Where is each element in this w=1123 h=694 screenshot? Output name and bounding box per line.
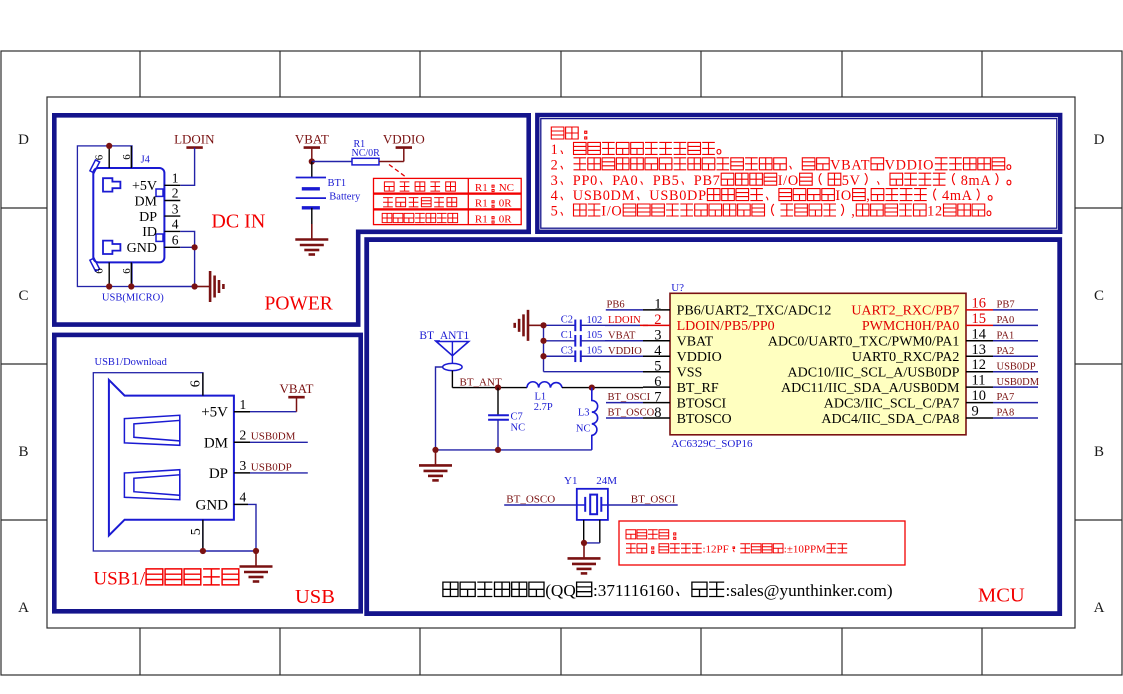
- J4 mounting tab top-left: [90, 160, 100, 173]
- wire VBAT bar to junction: [311, 148, 313, 162]
- net label PB6: [606, 309, 643, 311]
- ground: [568, 543, 601, 574]
- net label USB0DM: [234, 441, 250, 443]
- svg-text:PWMCH0H/PA0: PWMCH0H/PA0: [862, 319, 960, 334]
- svg-text:VBAT: VBAT: [830, 157, 870, 173]
- capacitor C1: [544, 335, 606, 347]
- net label PA1: [993, 340, 1038, 342]
- svg-text:USB0DP: USB0DP: [251, 461, 292, 473]
- svg-text:PA0: PA0: [612, 173, 638, 189]
- svg-text:ADC10/IIC_SCL_A/USB0DP: ADC10/IIC_SCL_A/USB0DP: [787, 365, 959, 380]
- MCU section border (sheet box): [367, 240, 1060, 614]
- svg-text:DM: DM: [134, 194, 157, 209]
- net label PB7: [993, 309, 1038, 311]
- capacitor C2: [544, 320, 606, 332]
- svg-text:U?: U?: [671, 282, 684, 294]
- J4 contact pad lower: [103, 241, 120, 254]
- junction: [309, 158, 315, 164]
- net label BT_OSCO: [606, 417, 643, 419]
- wire RF ground rail: [436, 449, 592, 451]
- svg-text:DP: DP: [209, 466, 228, 482]
- junction: [106, 283, 112, 289]
- crystal case ground wires: [584, 520, 600, 543]
- svg-text:B: B: [18, 444, 28, 460]
- junction: [581, 540, 587, 546]
- J4 shield pin stubs: [108, 146, 110, 168]
- USB1 pin 5 stub: [202, 520, 204, 551]
- wire R1 to VDDIO: [379, 161, 404, 163]
- svg-text:0R: 0R: [499, 213, 513, 225]
- callout dashed leader: [389, 165, 407, 178]
- svg-text:C3: C3: [561, 345, 573, 356]
- svg-text:L1: L1: [535, 392, 547, 403]
- net label VBAT: [605, 340, 643, 342]
- J4 pin 3 stub: [164, 215, 180, 217]
- table row text 2: [383, 198, 457, 207]
- svg-text:,: ,: [866, 188, 870, 204]
- svg-text:D: D: [18, 132, 29, 148]
- svg-text:,: ,: [851, 204, 855, 220]
- net label USB0DM: [993, 386, 1038, 388]
- svg-text:PA8: PA8: [997, 408, 1015, 419]
- svg-text:105: 105: [587, 346, 603, 357]
- ground: [419, 450, 452, 481]
- svg-text:PA2: PA2: [997, 346, 1015, 357]
- svg-text:BTOSCI: BTOSCI: [677, 396, 727, 411]
- USB1 pin 6 stub: [202, 373, 204, 396]
- wire J4 pin4 to GND net: [180, 231, 194, 247]
- U? pin 15 stub: [966, 324, 993, 326]
- junction: [128, 283, 134, 289]
- svg-text:3: 3: [551, 173, 559, 189]
- wire USB1 pin1 to VBAT: [234, 411, 250, 413]
- svg-text:7: 7: [654, 389, 661, 405]
- svg-text:GND: GND: [127, 241, 157, 256]
- net label USB0DP: [234, 472, 250, 474]
- USB section border (sheet box): [54, 335, 360, 611]
- svg-text:PA7: PA7: [997, 392, 1015, 403]
- svg-text:D: D: [1094, 132, 1105, 148]
- svg-text:DM: DM: [204, 435, 228, 451]
- svg-text:12: 12: [972, 357, 987, 373]
- svg-text:ADC0/UART0_TXC/PWM0/PA1: ADC0/UART0_TXC/PWM0/PA1: [768, 335, 960, 350]
- wire L1 to BT_RF pin: [562, 387, 643, 389]
- svg-text:DC IN: DC IN: [211, 211, 265, 233]
- svg-text:2: 2: [172, 186, 179, 201]
- junction: [540, 338, 546, 344]
- svg-text:L3: L3: [578, 408, 590, 419]
- svg-text:2: 2: [240, 428, 247, 443]
- junction: [192, 244, 198, 250]
- svg-text::±10PPM: :±10PPM: [784, 544, 826, 556]
- crystal Y1: [577, 489, 608, 520]
- svg-text:I/O: I/O: [601, 204, 622, 220]
- U? pin 13 stub: [966, 355, 993, 357]
- U? pin 6 stub: [643, 386, 670, 388]
- svg-text:LDOIN/PB5/PP0: LDOIN/PB5/PP0: [677, 319, 775, 334]
- connector J4 micro-USB body: [93, 168, 164, 262]
- R1 option table: [374, 178, 522, 193]
- wire antenna to ground rail: [436, 367, 443, 450]
- J4 pin bump pin5: [156, 234, 163, 241]
- crystal note box: [619, 521, 905, 565]
- svg-text:USB1/Download: USB1/Download: [95, 357, 168, 368]
- svg-text:C2: C2: [561, 314, 573, 325]
- battery BT1: [296, 162, 326, 225]
- svg-text:IO: IO: [835, 188, 852, 204]
- svg-text:I/O: I/O: [778, 173, 799, 189]
- svg-text:USB: USB: [295, 586, 335, 608]
- capacitor C7: [488, 388, 509, 450]
- svg-text:PB5: PB5: [653, 173, 680, 189]
- svg-text:2.7P: 2.7P: [534, 402, 553, 413]
- svg-text:BT1: BT1: [328, 178, 347, 189]
- svg-text:POWER: POWER: [265, 294, 333, 315]
- svg-text:1: 1: [172, 171, 179, 186]
- junction: [495, 385, 501, 391]
- svg-text:PB6: PB6: [607, 300, 625, 311]
- svg-text:R1: R1: [475, 213, 488, 225]
- svg-text:6: 6: [654, 374, 661, 390]
- power port LDOIN: [174, 131, 215, 147]
- POWER section border (L-shaped sheet box): [54, 115, 528, 324]
- inductor L3: [592, 388, 598, 450]
- ground: [240, 551, 273, 582]
- power port VBAT: [295, 131, 329, 147]
- svg-text:USB0DP: USB0DP: [997, 361, 1036, 372]
- notes box border: [537, 115, 1060, 232]
- wire antenna to L1: [452, 387, 527, 389]
- svg-text:C7: C7: [511, 411, 523, 422]
- svg-text:ADC3/IIC_SCL_C/PA7: ADC3/IIC_SCL_C/PA7: [824, 396, 960, 411]
- svg-text:+5V: +5V: [201, 405, 228, 421]
- junction: [200, 548, 206, 554]
- svg-text:C1: C1: [561, 330, 573, 341]
- svg-text:BT_RF: BT_RF: [677, 381, 719, 396]
- wire VDDIO stub: [403, 148, 405, 162]
- svg-text:13: 13: [972, 342, 987, 358]
- svg-text:USB1/: USB1/: [93, 568, 145, 589]
- U? pin 7 stub: [643, 402, 670, 404]
- svg-text:10: 10: [972, 388, 987, 404]
- U? pin 8 stub: [643, 417, 670, 419]
- net label USB0DP: [993, 371, 1038, 373]
- svg-text:0R: 0R: [499, 198, 513, 210]
- svg-text:5: 5: [551, 204, 559, 220]
- connector J4 pad frame: [77, 146, 132, 287]
- svg-text:6: 6: [94, 154, 106, 160]
- svg-text:A: A: [1094, 600, 1105, 616]
- svg-text:NC: NC: [576, 424, 591, 435]
- svg-text:USB0DP: USB0DP: [649, 188, 706, 204]
- svg-text:3: 3: [172, 201, 179, 216]
- svg-text:5: 5: [654, 359, 661, 375]
- svg-text:24M: 24M: [596, 475, 617, 487]
- wire LDOIN to J4 pin1: [180, 148, 194, 186]
- svg-text:9: 9: [972, 404, 979, 420]
- svg-text::371116160: :371116160: [593, 581, 674, 600]
- svg-text:LDOIN: LDOIN: [608, 315, 641, 326]
- resistor R1: [352, 158, 379, 165]
- svg-text:ADC4/IIC_SDA_C/PA8: ADC4/IIC_SDA_C/PA8: [821, 412, 959, 427]
- J4 contact pad upper: [103, 178, 120, 191]
- svg-text:VDDIO: VDDIO: [383, 131, 425, 146]
- U? pin 1 stub: [643, 309, 670, 311]
- svg-text:NC: NC: [499, 182, 514, 194]
- svg-text:12: 12: [927, 204, 943, 220]
- wire J4 pin6/GND down: [180, 247, 194, 286]
- antenna BT_ANT1: [436, 342, 468, 371]
- svg-text:8: 8: [654, 405, 661, 421]
- svg-text:2: 2: [654, 312, 661, 328]
- ground: [515, 310, 544, 341]
- U? pin 3 stub: [643, 340, 670, 342]
- svg-text:1: 1: [551, 142, 559, 158]
- svg-text:R1: R1: [475, 198, 488, 210]
- wire USB1 pin4 to ground: [234, 503, 248, 505]
- svg-text:MCU: MCU: [978, 585, 1025, 607]
- svg-text:ID: ID: [142, 225, 157, 240]
- connector USB1 USB-A body: [109, 380, 234, 536]
- svg-text:UART2_RXC/PB7: UART2_RXC/PB7: [851, 304, 959, 319]
- net label PA7: [993, 402, 1038, 404]
- svg-text:VBAT: VBAT: [280, 381, 314, 396]
- svg-text:VSS: VSS: [677, 365, 703, 380]
- net label VDDIO: [605, 355, 643, 357]
- svg-text:1: 1: [654, 297, 661, 313]
- wire USB1 shield bottom: [203, 550, 256, 552]
- svg-text:6: 6: [189, 380, 204, 387]
- junction: [192, 283, 198, 289]
- table row text 3: [382, 213, 457, 222]
- junction: [432, 447, 438, 453]
- svg-text:NC: NC: [511, 422, 526, 433]
- svg-text:USB0DM: USB0DM: [997, 377, 1040, 388]
- svg-text:15: 15: [972, 311, 987, 327]
- svg-text:BT_OSCI: BT_OSCI: [631, 494, 676, 506]
- svg-text:PA0: PA0: [997, 315, 1015, 326]
- inductor L1: [527, 382, 562, 388]
- J4 pin 6 stub: [164, 246, 180, 248]
- J4 pin 1 stub: [164, 184, 180, 186]
- svg-text:Battery: Battery: [329, 191, 361, 202]
- svg-text:4: 4: [172, 217, 179, 232]
- svg-text:PB6/UART2_TXC/ADC12: PB6/UART2_TXC/ADC12: [677, 304, 832, 319]
- svg-text:(QQ: (QQ: [545, 581, 576, 600]
- wire VBAT to R1: [312, 161, 352, 163]
- svg-text:PB7: PB7: [997, 300, 1015, 311]
- net label BT_OSCI (crystal): [608, 504, 678, 506]
- svg-text:USB0DM: USB0DM: [573, 188, 635, 204]
- svg-text:4mA: 4mA: [942, 188, 973, 204]
- svg-text:C: C: [1094, 288, 1104, 304]
- svg-text:6: 6: [172, 233, 179, 248]
- svg-text:16: 16: [972, 295, 987, 311]
- svg-text:PB7: PB7: [694, 173, 721, 189]
- svg-text:3: 3: [240, 458, 247, 473]
- junction: [589, 385, 595, 391]
- svg-text:11: 11: [972, 373, 986, 389]
- ground: [195, 271, 224, 302]
- U? pin 11 stub: [966, 386, 993, 388]
- net label LDOIN: [605, 324, 640, 326]
- svg-text:VBAT: VBAT: [677, 335, 714, 350]
- svg-text:AC6329C_SOP16: AC6329C_SOP16: [671, 438, 753, 450]
- junction: [495, 447, 501, 453]
- svg-text:8mA: 8mA: [961, 173, 992, 189]
- svg-text:LDOIN: LDOIN: [174, 131, 215, 146]
- svg-text:A: A: [18, 600, 29, 616]
- svg-text:102: 102: [587, 315, 603, 326]
- svg-text:4: 4: [551, 188, 559, 204]
- svg-text:4: 4: [654, 343, 662, 359]
- svg-text:ADC11/IIC_SDA_A/USB0DM: ADC11/IIC_SDA_A/USB0DM: [781, 381, 960, 396]
- svg-text::sales@yunthinker.com): :sales@yunthinker.com): [726, 581, 893, 600]
- U? pin 4 stub: [643, 355, 670, 357]
- U? pin 14 stub: [966, 340, 993, 342]
- svg-text:PP0: PP0: [573, 173, 598, 189]
- svg-text:PA1: PA1: [997, 330, 1015, 341]
- connector USB1 pad frame: [93, 373, 203, 551]
- svg-text:3: 3: [654, 328, 661, 344]
- U? pin 16 stub: [966, 309, 993, 311]
- junction: [540, 322, 546, 328]
- U? pin 12 stub: [966, 371, 993, 373]
- junction: [253, 548, 259, 554]
- power port VDDIO: [383, 131, 425, 147]
- svg-text:VDDIO: VDDIO: [608, 346, 642, 357]
- net label PA0: [993, 324, 1038, 326]
- svg-text:UART0_RXC/PA2: UART0_RXC/PA2: [852, 350, 960, 365]
- net label BT_OSCI: [606, 402, 643, 404]
- svg-text:4: 4: [240, 490, 247, 505]
- svg-text:6: 6: [94, 268, 106, 274]
- net label PA8: [993, 417, 1038, 419]
- J4 pin 4 stub: [164, 230, 180, 232]
- svg-text:USB0DM: USB0DM: [251, 431, 296, 443]
- svg-text:VDDIO: VDDIO: [677, 350, 722, 365]
- junction: [106, 143, 112, 149]
- USB1 contact upper: [124, 415, 179, 445]
- svg-text:GND: GND: [196, 497, 229, 513]
- svg-text:5: 5: [189, 528, 204, 535]
- USB1 contact lower: [124, 470, 179, 500]
- capacitor C3: [544, 350, 606, 362]
- U? pin 5 stub: [643, 371, 670, 373]
- wire antenna feed: [451, 371, 453, 388]
- svg-text:14: 14: [972, 326, 987, 342]
- svg-text:Y1: Y1: [564, 475, 577, 487]
- ground: [295, 224, 328, 255]
- wire J4 shield bottom: [132, 286, 195, 288]
- net label BT_OSCO (crystal): [504, 504, 577, 506]
- J4 mounting tab bottom-left: [90, 258, 100, 271]
- svg-text:VDDIO: VDDIO: [885, 157, 935, 173]
- svg-text:B: B: [1094, 444, 1104, 460]
- svg-text:105: 105: [587, 330, 603, 341]
- svg-text:C: C: [18, 288, 28, 304]
- cap rail wire: [543, 325, 545, 371]
- net label PA2: [993, 355, 1038, 357]
- MCU chip U? body: [670, 293, 966, 435]
- junction: [540, 353, 546, 359]
- power port VBAT: [280, 381, 314, 397]
- svg-text:2: 2: [551, 157, 559, 173]
- svg-text:USB(MICRO): USB(MICRO): [102, 293, 164, 304]
- U? pin 9 stub: [966, 417, 993, 419]
- svg-text:R1: R1: [475, 182, 488, 194]
- J4 pin 2 stub: [164, 200, 180, 202]
- U? pin 2 stub: [643, 324, 670, 326]
- svg-text:J4: J4: [141, 155, 151, 166]
- svg-text:NC/0R: NC/0R: [352, 148, 381, 159]
- svg-text:BT_OSCI: BT_OSCI: [608, 392, 651, 403]
- notes text 备注: [551, 127, 587, 139]
- svg-text:VBAT: VBAT: [295, 131, 329, 146]
- svg-text:BT_OSCO: BT_OSCO: [506, 494, 555, 506]
- svg-text:5V: 5V: [842, 173, 861, 189]
- svg-text:+5V: +5V: [132, 179, 157, 194]
- crystal note text: [626, 530, 676, 540]
- J4 pin bump pin2: [156, 189, 163, 196]
- svg-text:1: 1: [240, 397, 247, 412]
- table row text 1: [384, 182, 455, 191]
- svg-text:DP: DP: [139, 210, 157, 225]
- U? pin 10 stub: [966, 402, 993, 404]
- svg-text:BT_ANT1: BT_ANT1: [419, 330, 469, 342]
- svg-text:BTOSCO: BTOSCO: [677, 412, 732, 427]
- wire VSS to rail: [544, 371, 644, 373]
- svg-text:BT_OSCO: BT_OSCO: [608, 408, 655, 419]
- svg-text:VBAT: VBAT: [608, 330, 636, 341]
- svg-text::12PF: :12PF: [703, 544, 729, 556]
